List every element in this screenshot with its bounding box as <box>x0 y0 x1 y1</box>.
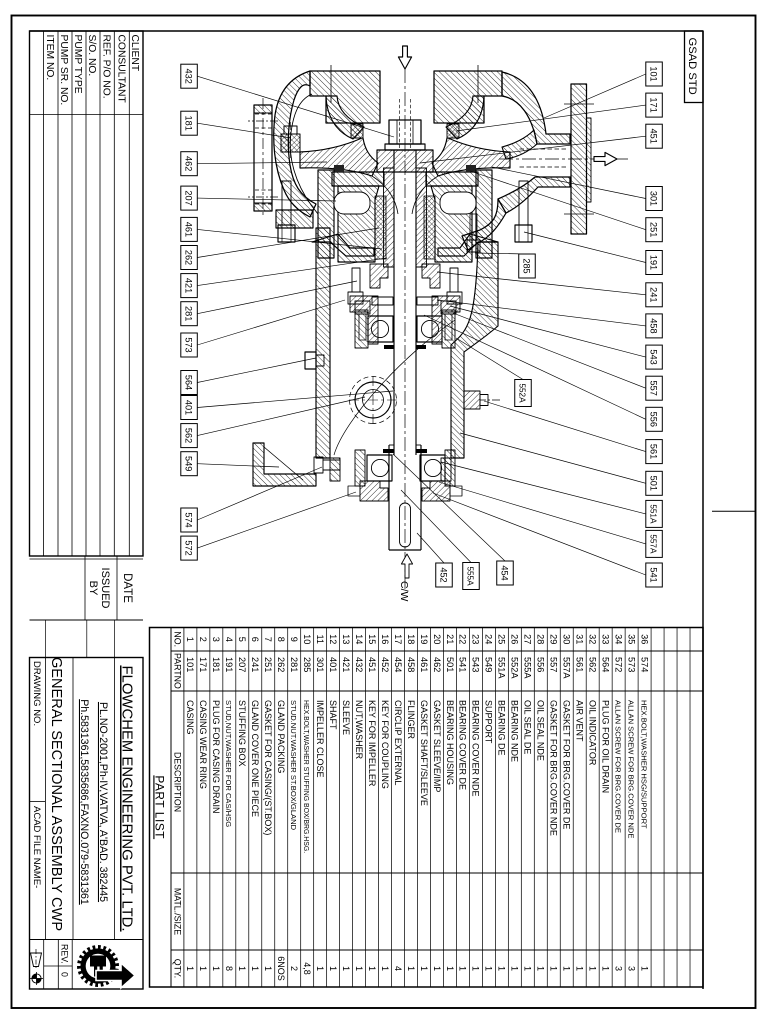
svg-text:ITEM NO.: ITEM NO. <box>44 35 55 81</box>
svg-text:7: 7 <box>263 637 273 642</box>
svg-text:S/O. NO.: S/O. NO. <box>86 35 97 77</box>
svg-text:17: 17 <box>393 634 403 644</box>
NDE cover allan screw upper <box>441 301 456 314</box>
svg-text:458: 458 <box>406 657 416 672</box>
housing interior line <box>334 320 455 455</box>
svg-text:543: 543 <box>471 657 481 672</box>
svg-text:29: 29 <box>549 634 559 644</box>
svg-text:BY: BY <box>87 581 99 596</box>
svg-text:452: 452 <box>438 567 448 582</box>
svg-text:BEARING HOUSING: BEARING HOUSING <box>445 700 455 785</box>
NDE bearing lower <box>368 316 393 342</box>
hex bolt stuffing box/brg hsg (285) upper <box>467 240 480 252</box>
svg-text:101: 101 <box>648 66 658 81</box>
svg-text:Ph.5831361,5835686,FAXNO.079-5: Ph.5831361,5835686,FAXNO.079-5831361 <box>78 699 90 905</box>
balloon 501 <box>646 471 663 495</box>
part list table frame <box>150 628 704 988</box>
shaft thread dashes at nut <box>410 99 412 148</box>
balloon 557A <box>646 530 663 557</box>
svg-text:KEY FOR IMPELLER: KEY FOR IMPELLER <box>367 700 377 787</box>
pump sectional drawing <box>248 46 628 602</box>
svg-text:26: 26 <box>510 634 520 644</box>
svg-text:21: 21 <box>445 634 455 644</box>
svg-text:33: 33 <box>600 634 610 644</box>
balloon 241 <box>646 283 663 307</box>
gasket casing/cover lower (251) <box>334 165 344 172</box>
balloon 543 <box>646 345 663 369</box>
svg-text:285: 285 <box>302 657 312 672</box>
svg-text:PUMP SR. NO.: PUMP SR. NO. <box>58 35 69 106</box>
coupling keyway slot (452) <box>400 503 411 547</box>
svg-text:462: 462 <box>183 156 193 171</box>
svg-text:1: 1 <box>419 966 429 971</box>
casing upper-right wall <box>462 199 506 250</box>
svg-text:15: 15 <box>367 634 377 644</box>
svg-text:13: 13 <box>341 634 351 644</box>
svg-text:AIR VENT: AIR VENT <box>575 700 585 742</box>
svg-text:KEY FOR COUPLING: KEY FOR COUPLING <box>380 700 390 789</box>
svg-text:REF. P/O NO.: REF. P/O NO. <box>101 35 112 99</box>
svg-text:9: 9 <box>289 637 299 642</box>
casing upper-left wall and discharge pipe left wall <box>502 72 570 144</box>
svg-text:458: 458 <box>648 318 658 333</box>
flinger <box>417 297 438 305</box>
svg-text:8: 8 <box>276 637 286 642</box>
svg-text:35: 35 <box>626 634 636 644</box>
impeller nut washer <box>385 144 425 150</box>
NDE bearing seat <box>442 310 455 348</box>
svg-text:12: 12 <box>328 634 338 644</box>
svg-text:543: 543 <box>648 349 658 364</box>
svg-text:207: 207 <box>237 657 247 672</box>
svg-text:3: 3 <box>626 966 636 971</box>
svg-text:10: 10 <box>302 634 312 644</box>
hsg/support bolt (574) <box>314 457 340 473</box>
casing drain plug <box>281 134 300 152</box>
air vent <box>464 391 480 409</box>
bearing housing bottom wall <box>316 228 330 458</box>
casing foot plate <box>254 105 272 211</box>
svg-text:552A: 552A <box>510 657 520 679</box>
svg-text:1: 1 <box>237 966 247 971</box>
DE end housing wall <box>330 458 451 481</box>
balloon 421 <box>181 274 198 298</box>
shaft sleeve lower <box>384 168 395 267</box>
svg-text:557: 557 <box>648 381 658 396</box>
svg-text:OIL SEAL NDE: OIL SEAL NDE <box>536 700 546 761</box>
svg-text:11: 11 <box>315 634 325 644</box>
balloon 555A <box>463 563 480 590</box>
svg-text:REV.: REV. <box>60 944 70 964</box>
svg-text:1: 1 <box>588 966 598 971</box>
discharge nozzle centerline <box>496 158 628 160</box>
svg-text:PART LIST: PART LIST <box>153 775 167 839</box>
svg-text:ALLAN SCREW FOR BRG.COVER NDE: ALLAN SCREW FOR BRG.COVER NDE <box>626 700 635 838</box>
svg-text:1: 1 <box>484 966 494 971</box>
narrow empty column <box>30 657 144 659</box>
svg-text:501: 501 <box>445 657 455 672</box>
svg-text:301: 301 <box>648 191 658 206</box>
casing cover plate lower <box>332 172 384 186</box>
svg-text:1: 1 <box>250 966 260 971</box>
svg-text:401: 401 <box>328 657 338 672</box>
svg-text:452: 452 <box>380 657 390 672</box>
gland stud upper (281) <box>450 268 458 292</box>
svg-text:HEX.BOLT,WASHER HSG/SUPPORT: HEX.BOLT,WASHER HSG/SUPPORT <box>639 700 648 829</box>
suction flange plate upper <box>434 71 502 123</box>
discharge flow arrow <box>594 152 617 165</box>
balloon 281 <box>181 302 198 326</box>
svg-text:191: 191 <box>224 657 234 672</box>
balloon 564 <box>181 371 198 395</box>
svg-text:14: 14 <box>354 634 364 644</box>
svg-text:171: 171 <box>198 657 208 672</box>
svg-text:432: 432 <box>183 69 193 84</box>
svg-text:PLUG FOR CASING DRAIN: PLUG FOR CASING DRAIN <box>211 700 221 814</box>
circlip DE (454) <box>416 449 427 453</box>
impeller upper shroud and vanes <box>432 138 510 176</box>
svg-text:31: 31 <box>575 634 585 644</box>
left drawing-zone border <box>30 30 704 32</box>
svg-text:OIL INDICATOR: OIL INDICATOR <box>588 700 598 766</box>
balloon 549 <box>181 452 198 476</box>
svg-text:181: 181 <box>211 657 221 672</box>
svg-text:1: 1 <box>198 966 208 971</box>
balloon 401 <box>181 396 198 420</box>
balloon 454 <box>497 561 514 585</box>
svg-text:572: 572 <box>613 657 623 672</box>
discharge flange plate <box>571 84 587 234</box>
svg-text:PUMP TYPE: PUMP TYPE <box>72 35 83 94</box>
svg-text:0: 0 <box>60 972 70 977</box>
svg-text:285: 285 <box>521 258 531 273</box>
svg-text:SLEEVE: SLEEVE <box>341 700 351 735</box>
svg-text:564: 564 <box>183 375 193 390</box>
bearing housing front bracket <box>451 242 498 458</box>
svg-text:301: 301 <box>315 657 325 672</box>
balloon 556 <box>646 407 663 431</box>
suction flange bolt ticks <box>477 65 479 103</box>
balloon 285 <box>519 254 536 278</box>
svg-text:PL.NO-2001,Ph-IV,VATVA, A'BAD.: PL.NO-2001,Ph-IV,VATVA, A'BAD. 382445 <box>97 702 109 902</box>
balloon 101 <box>646 62 663 86</box>
balloon 561 <box>646 440 663 464</box>
svg-text:555A: 555A <box>523 657 533 679</box>
svg-text:STUFFING BOX: STUFFING BOX <box>237 700 247 767</box>
balloon 171 <box>646 93 663 117</box>
svg-text:16: 16 <box>380 634 390 644</box>
svg-text:462: 462 <box>432 657 442 672</box>
svg-text:101: 101 <box>185 657 195 672</box>
svg-text:24: 24 <box>484 634 494 644</box>
top rule line <box>702 31 704 989</box>
svg-text:1: 1 <box>549 966 559 971</box>
svg-text:421: 421 <box>341 657 351 672</box>
balloon 573 <box>181 333 198 357</box>
balloon 191 <box>646 251 663 275</box>
svg-text:551A: 551A <box>497 657 507 679</box>
svg-text:6NOS: 6NOS <box>276 956 286 981</box>
NDE bearing upper <box>417 316 442 342</box>
svg-text:181: 181 <box>183 116 193 131</box>
flowchem gear logo <box>77 945 135 988</box>
svg-text:564: 564 <box>600 657 610 672</box>
svg-text:3: 3 <box>211 637 221 642</box>
suction wall band lower <box>326 96 364 139</box>
svg-text:STUD,NUT,WASHER FOR CAS/HSG: STUD,NUT,WASHER FOR CAS/HSG <box>224 700 233 827</box>
svg-text:BEARING COVER NDE: BEARING COVER NDE <box>471 700 481 797</box>
svg-text:461: 461 <box>419 657 429 672</box>
balloon 462 <box>181 152 198 176</box>
svg-text:241: 241 <box>250 657 260 672</box>
date / issued-by block <box>30 555 144 557</box>
DE bearing upper <box>420 455 445 481</box>
svg-text:18: 18 <box>406 634 416 644</box>
svg-text:OIL SEAL DE: OIL SEAL DE <box>523 700 533 754</box>
svg-text:ISSUED: ISSUED <box>99 568 111 609</box>
svg-text:1: 1 <box>575 966 585 971</box>
balloon 432 <box>181 64 198 88</box>
svg-text:262: 262 <box>183 250 193 265</box>
balloon 551A <box>646 500 663 527</box>
svg-text:DESCRIPTION: DESCRIPTION <box>172 752 182 812</box>
svg-text:1: 1 <box>510 966 520 971</box>
svg-text:HEX.BOLT,WASHER STUFFING BOX/B: HEX.BOLT,WASHER STUFFING BOX/BRG.HSG. <box>302 700 309 853</box>
gland lower <box>370 264 388 288</box>
svg-text:SHAFT: SHAFT <box>328 700 338 730</box>
volute tongue band <box>502 130 537 159</box>
svg-text:BEARING NDE: BEARING NDE <box>510 700 520 762</box>
svg-text:1: 1 <box>536 966 546 971</box>
svg-text:557: 557 <box>549 657 559 672</box>
svg-text:DATE: DATE <box>121 573 133 603</box>
impeller hub <box>377 150 433 172</box>
svg-text:561: 561 <box>648 444 658 459</box>
svg-text:281: 281 <box>183 306 193 321</box>
svg-text:CIRCLIP EXTERNAL: CIRCLIP EXTERNAL <box>393 700 403 785</box>
balloon 461 <box>181 217 198 241</box>
gland packing lower <box>375 196 386 259</box>
discharge pipe right wall <box>498 177 570 213</box>
svg-text:421: 421 <box>183 278 193 293</box>
svg-text:22: 22 <box>458 634 468 644</box>
circlip NDE (454) <box>416 345 426 349</box>
svg-text:555A: 555A <box>465 566 474 586</box>
casing cover plate upper <box>426 172 478 186</box>
gasket casing/cover upper (251) <box>466 165 476 172</box>
svg-text:4,8: 4,8 <box>302 962 312 975</box>
svg-text:28: 28 <box>536 634 546 644</box>
svg-text:1: 1 <box>185 637 195 642</box>
svg-text:281: 281 <box>289 657 299 672</box>
svg-text:FLINGER: FLINGER <box>406 700 416 740</box>
svg-text:1: 1 <box>406 966 416 971</box>
cover stud lower (191) <box>282 181 291 225</box>
casing foot riser <box>276 210 313 228</box>
svg-text:ALLAN SCREW FOR BRG.COVER DE: ALLAN SCREW FOR BRG.COVER DE <box>613 700 622 833</box>
stuffing box bolt arch lower <box>334 192 370 214</box>
svg-text:1: 1 <box>600 966 610 971</box>
svg-text:541: 541 <box>648 567 658 582</box>
volute inner wall lines <box>290 94 318 214</box>
svg-text:561: 561 <box>575 657 585 672</box>
balloon 574 <box>181 508 198 532</box>
svg-text:1: 1 <box>432 966 442 971</box>
svg-text:FLOWCHEM ENGINEERING PVT. LTD.: FLOWCHEM ENGINEERING PVT. LTD. <box>119 665 135 931</box>
svg-text:23: 23 <box>471 634 481 644</box>
svg-text:GASKET SLEEVE/IMP: GASKET SLEEVE/IMP <box>432 700 442 792</box>
svg-text:171: 171 <box>648 97 658 112</box>
svg-text:574: 574 <box>183 512 193 527</box>
svg-text:556: 556 <box>648 412 658 427</box>
impeller nut <box>389 120 421 144</box>
svg-text:4: 4 <box>393 966 403 971</box>
svg-text:551A: 551A <box>648 504 657 524</box>
stuffing box flange upper <box>476 170 492 258</box>
stuffing box flange lower <box>318 170 334 258</box>
balloon 572 <box>181 536 198 560</box>
casing wear ring lower <box>351 124 363 138</box>
company title block <box>30 658 144 990</box>
balloon 552A <box>515 380 532 407</box>
NDE cover allan screw lower <box>355 301 370 314</box>
svg-text:27: 27 <box>523 634 533 644</box>
svg-text:32: 32 <box>588 634 598 644</box>
svg-text:6: 6 <box>250 637 260 642</box>
svg-text:1: 1 <box>471 966 481 971</box>
svg-text:549: 549 <box>484 657 494 672</box>
svg-text:NO.: NO. <box>172 631 182 647</box>
oil sight glass <box>355 382 391 418</box>
svg-text:20: 20 <box>432 634 442 644</box>
projection cone symbol <box>31 953 42 967</box>
svg-text:PARTNO: PARTNO <box>172 653 182 689</box>
svg-text:GASKET SHAFT/SLEEVE: GASKET SHAFT/SLEEVE <box>419 700 429 806</box>
svg-text:C/W: C/W <box>398 581 410 602</box>
svg-text:573: 573 <box>183 337 193 352</box>
svg-text:34: 34 <box>613 634 623 644</box>
svg-text:CASING WEAR RING: CASING WEAR RING <box>198 700 208 789</box>
DE cover allan screw <box>450 486 462 496</box>
casing wear ring upper <box>447 124 459 138</box>
svg-text:GASKET FOR BRG.COVER DE: GASKET FOR BRG.COVER DE <box>562 700 572 829</box>
svg-text:1: 1 <box>380 966 390 971</box>
svg-text:GSAD STD: GSAD STD <box>686 38 698 95</box>
svg-text:1: 1 <box>328 966 338 971</box>
suction flow arrow <box>398 46 411 69</box>
svg-text:3: 3 <box>613 966 623 971</box>
svg-text:BEARING COVER DE: BEARING COVER DE <box>458 700 468 790</box>
svg-text:CASING: CASING <box>185 700 195 735</box>
stuffing box barrel upper <box>431 186 472 262</box>
shaft centerline <box>404 46 406 592</box>
discharge flange bolt ticks <box>564 103 594 105</box>
balloon 458 <box>646 314 663 338</box>
svg-text:DRAWING NO.: DRAWING NO. <box>31 661 42 726</box>
top centre fold tick <box>712 510 756 512</box>
balloon 207 <box>181 186 198 210</box>
svg-text:562: 562 <box>588 657 598 672</box>
svg-text:BEARING DE: BEARING DE <box>497 700 507 756</box>
oil drain plug <box>305 352 316 369</box>
suction wall band upper <box>446 96 484 139</box>
gland stud lower (281) <box>352 268 360 292</box>
stuffing box bolt arch upper <box>440 192 476 214</box>
svg-text:5: 5 <box>237 637 247 642</box>
svg-text:GLAND COVER ONE PIECE: GLAND COVER ONE PIECE <box>250 700 260 817</box>
svg-text:574: 574 <box>639 657 649 672</box>
svg-text:1: 1 <box>562 966 572 971</box>
svg-text:PLUG FOR OIL DRAIN: PLUG FOR OIL DRAIN <box>600 700 610 793</box>
balloon 562 <box>181 424 198 448</box>
svg-text:451: 451 <box>648 129 658 144</box>
svg-text:QTY.: QTY. <box>172 959 182 978</box>
support foot <box>253 443 316 486</box>
svg-text:1: 1 <box>445 966 455 971</box>
svg-text:207: 207 <box>183 190 193 205</box>
svg-text:573: 573 <box>626 657 636 672</box>
casing lower wall <box>274 71 316 217</box>
svg-text:19: 19 <box>419 634 429 644</box>
svg-text:241: 241 <box>648 287 658 302</box>
datum target symbol <box>32 974 41 983</box>
rotation arrow C/W <box>401 554 412 578</box>
impeller lower shroud and vanes <box>300 138 378 176</box>
balloon 451 <box>646 124 663 148</box>
gland packing upper <box>424 196 435 259</box>
svg-text:432: 432 <box>354 657 364 672</box>
svg-text:191: 191 <box>648 255 658 270</box>
DE bearing cover <box>422 481 450 501</box>
rev block <box>71 940 73 990</box>
svg-text:2: 2 <box>198 637 208 642</box>
shaft sleeve upper <box>416 168 427 267</box>
svg-text:GENERAL SECTIONAL ASSEMBLY CWP: GENERAL SECTIONAL ASSEMBLY CWP <box>48 657 64 931</box>
svg-text:IMPELLER CLOSE: IMPELLER CLOSE <box>315 700 325 778</box>
svg-text:4: 4 <box>224 637 234 642</box>
balloon 301 <box>646 187 663 211</box>
svg-text:262: 262 <box>276 657 286 672</box>
svg-text:NUT,WASHER: NUT,WASHER <box>354 700 364 760</box>
svg-text:1: 1 <box>523 966 533 971</box>
balloon 452 <box>436 563 453 587</box>
svg-text:501: 501 <box>648 476 658 491</box>
NDE bearing cover <box>432 296 460 344</box>
suction flange plate lower <box>310 71 380 123</box>
balloon 181 <box>181 111 198 135</box>
svg-text:461: 461 <box>183 222 193 237</box>
svg-text:1: 1 <box>497 966 507 971</box>
svg-text:30: 30 <box>562 634 572 644</box>
svg-text:1: 1 <box>315 966 325 971</box>
svg-text:454: 454 <box>393 657 403 672</box>
svg-text:1: 1 <box>458 966 468 971</box>
stuffing box barrel lower <box>338 186 379 262</box>
svg-text:1: 1 <box>341 966 351 971</box>
svg-text:251: 251 <box>263 657 273 672</box>
svg-text:SUPPORT: SUPPORT <box>484 700 494 744</box>
svg-text:1: 1 <box>263 966 273 971</box>
balloon 262 <box>181 246 198 270</box>
svg-text:454: 454 <box>499 565 509 580</box>
balloon 251 <box>646 218 663 242</box>
GSAD STD box <box>685 31 704 103</box>
svg-text:ACAD FILE NAME-: ACAD FILE NAME- <box>31 806 42 888</box>
svg-text:556: 556 <box>536 657 546 672</box>
svg-text:25: 25 <box>497 634 507 644</box>
svg-text:562: 562 <box>183 428 193 443</box>
svg-text:1: 1 <box>211 966 221 971</box>
